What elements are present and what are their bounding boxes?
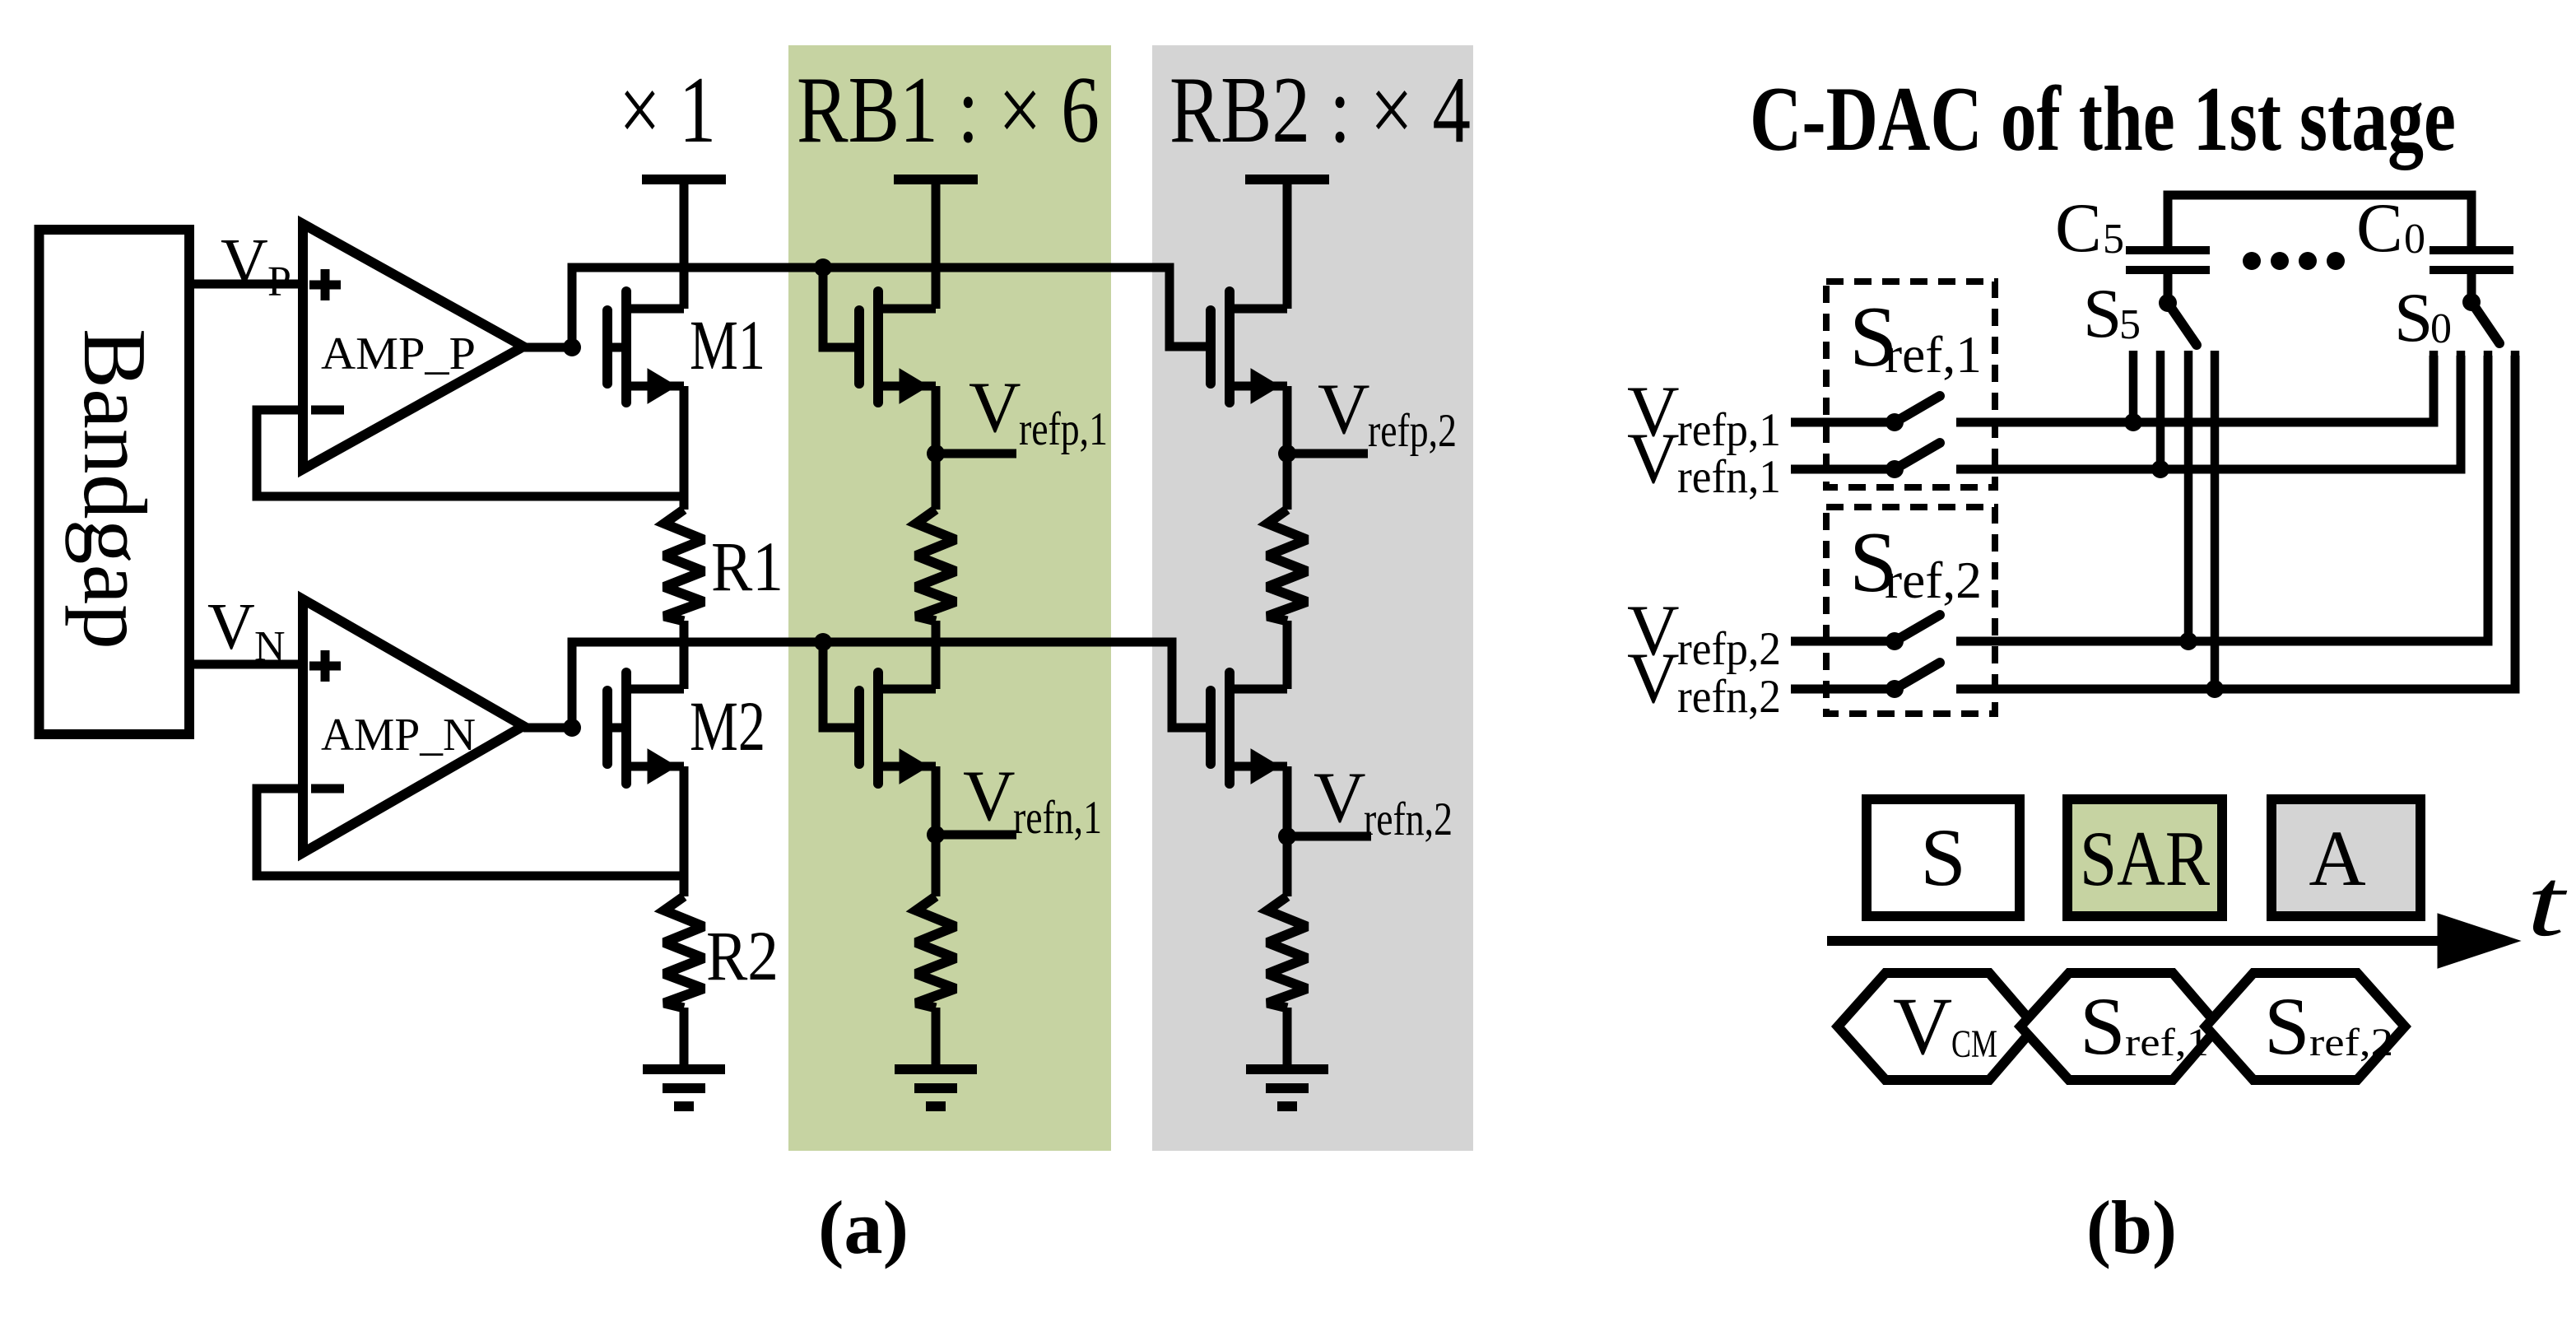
- svg-text:0: 0: [2430, 305, 2452, 352]
- svg-text:refp,1: refp,1: [1677, 404, 1781, 456]
- ellipsis dots: [2243, 252, 2261, 270]
- svg-text:refn,1: refn,1: [1677, 451, 1781, 503]
- junction dot M1 gate: [563, 338, 581, 356]
- wire rail Vrefn2: [1956, 356, 2515, 689]
- node Vrefn1 tap wire: [936, 831, 1016, 840]
- resistor RB2 lower: [1267, 896, 1307, 1008]
- timing box SAR: [2067, 799, 2222, 916]
- time axis: [1827, 936, 2453, 946]
- svg-text:ref,2: ref,2: [1885, 552, 1982, 609]
- wire RB1 upper gate tap: [823, 268, 859, 347]
- switch Sref2 p: [1886, 632, 1904, 650]
- node VP wire: [189, 280, 303, 289]
- svg-text:V: V: [1627, 419, 1680, 499]
- transistor RB1 upper: [873, 291, 883, 403]
- svg-text:N: N: [254, 623, 286, 670]
- junction dot Vrefp2: [1278, 445, 1296, 463]
- svg-text:P: P: [267, 258, 291, 305]
- wire Vrefp2 input stub: [1791, 637, 1895, 646]
- resistor R1: [664, 510, 704, 621]
- capacitor C0: [2430, 246, 2513, 254]
- transistor RB2 lower: [1225, 673, 1235, 784]
- svg-text:ref,1: ref,1: [1885, 326, 1982, 384]
- svg-text:C: C: [2055, 189, 2102, 267]
- svg-text:M2: M2: [690, 687, 765, 766]
- junction dot Vrefn2: [1278, 827, 1296, 845]
- shaded region RB1: [788, 45, 1111, 1151]
- junction dot Vrefp1: [927, 445, 945, 463]
- power VDD M1: [642, 175, 726, 184]
- dashed box Sref2: [1826, 507, 1995, 714]
- svg-text:RB2 : × 4: RB2 : × 4: [1169, 58, 1471, 162]
- resistor RB1 lower: [916, 896, 956, 1008]
- ground RB2: [1246, 1064, 1328, 1074]
- switch S5: [2159, 294, 2177, 312]
- transistor RB2 upper: [1225, 291, 1235, 403]
- svg-text:V: V: [221, 226, 268, 299]
- svg-text:S: S: [2080, 980, 2126, 1072]
- ground RB1: [895, 1064, 977, 1074]
- wire R2 to ground: [680, 1008, 689, 1069]
- wire RB2 mid: [1283, 621, 1292, 689]
- junction dot M2 gate: [563, 719, 581, 737]
- svg-text:C-DAC of the 1st stage: C-DAC of the 1st stage: [1750, 68, 2456, 170]
- svg-text:V: V: [1627, 639, 1680, 719]
- wires S5 selector verticals: [2129, 351, 2138, 422]
- svg-text:V: V: [1318, 370, 1370, 449]
- wire RB1 to ground: [932, 1008, 941, 1069]
- svg-text:C: C: [2356, 189, 2403, 267]
- node Vrefp1 tap wire: [936, 449, 1016, 459]
- svg-text:5: 5: [2119, 301, 2141, 348]
- junction dots S5 taps: [2124, 413, 2142, 431]
- transistor RB1 lower: [873, 673, 883, 784]
- node Vrefp2 tap wire: [1287, 449, 1368, 459]
- wire rail Vrefp1: [1956, 356, 2434, 422]
- power VDD RB2: [1245, 175, 1329, 184]
- svg-text:refp,1: refp,1: [1019, 403, 1108, 455]
- svg-text:AMP_N: AMP_N: [321, 710, 476, 761]
- svg-text:0: 0: [2404, 216, 2425, 263]
- wire RB2 upper source down: [1283, 386, 1292, 510]
- wire RB2 drain to VDD: [1283, 179, 1292, 309]
- svg-text:A: A: [2309, 814, 2365, 902]
- wire RB1 lower gate tap: [823, 642, 859, 728]
- switch Sref2 n: [1886, 680, 1904, 698]
- svg-text:V: V: [969, 368, 1021, 448]
- junction dot Vrefn1: [927, 826, 945, 844]
- wire C0 to switch: [2467, 270, 2476, 296]
- wire AMP_N output to M2 gate: [523, 724, 572, 733]
- svg-text:V: V: [1314, 758, 1366, 838]
- svg-text:RB1 : × 6: RB1 : × 6: [797, 58, 1100, 162]
- svg-text:5: 5: [2103, 216, 2124, 263]
- wire M1 source down: [680, 386, 689, 510]
- timing box A: [2271, 799, 2420, 916]
- op-amp AMP_P: [303, 224, 523, 469]
- dashed box Sref1: [1826, 282, 1995, 487]
- op-amp AMP_N: [303, 599, 523, 853]
- wire top plate rail: [2168, 195, 2471, 251]
- svg-text:ref,2: ref,2: [2309, 1021, 2393, 1064]
- wire rail Vrefp2: [1956, 356, 2488, 641]
- wire RB2 lower source down: [1283, 766, 1292, 896]
- svg-text:V: V: [963, 756, 1016, 836]
- wire RB1 mid: [932, 621, 941, 689]
- node Vrefn2 tap wire: [1287, 832, 1371, 841]
- wire gate bus lower: [572, 642, 1211, 728]
- capacitor C5: [2126, 246, 2210, 254]
- wire AMP_N feedback: [257, 789, 684, 876]
- wire M1 drain to VDD: [680, 179, 689, 309]
- svg-text:refn,1: refn,1: [1013, 792, 1102, 844]
- shaded region RB2: [1152, 45, 1473, 1151]
- ground center branch: [643, 1064, 725, 1074]
- svg-text:Bandgap: Bandgap: [65, 328, 165, 649]
- svg-text:(a): (a): [818, 1185, 909, 1269]
- wire Vrefp1 input stub: [1791, 418, 1895, 427]
- node VN wire: [189, 660, 303, 669]
- svg-text:refp,2: refp,2: [1677, 623, 1781, 675]
- svg-text:S: S: [2394, 279, 2433, 356]
- svg-text:refp,2: refp,2: [1368, 405, 1457, 457]
- svg-text:R1: R1: [711, 527, 783, 606]
- resistor R2: [664, 896, 704, 1008]
- svg-text:CM: CM: [1951, 1022, 1997, 1066]
- hexagon VCM: [1838, 973, 2035, 1080]
- wire RB1 drain to VDD: [932, 179, 941, 309]
- wire rail Vrefn1: [1956, 356, 2461, 469]
- resistor RB2 upper: [1267, 510, 1307, 621]
- hexagon Sref1 phase: [2020, 973, 2219, 1080]
- svg-text:M1: M1: [690, 305, 765, 384]
- junction dot RB1 upper gate: [814, 258, 832, 277]
- wire RB1 upper source down: [932, 386, 941, 510]
- wire RB2 to ground: [1283, 1008, 1292, 1069]
- svg-text:S: S: [1920, 812, 1966, 903]
- svg-text:t: t: [2527, 849, 2568, 957]
- wire AMP_P output to M1 gate: [523, 343, 572, 352]
- wire M2 source down: [680, 766, 689, 896]
- wire Vrefn1 input stub: [1791, 465, 1895, 474]
- transistor M1: [621, 291, 631, 403]
- wire gate bus upper: [572, 268, 1211, 347]
- wire C5 to switch: [2164, 270, 2173, 296]
- wires S0 selector verticals: [2430, 351, 2439, 422]
- wire AMP_P feedback: [257, 410, 684, 496]
- svg-text:S: S: [2083, 275, 2122, 352]
- svg-text:refn,2: refn,2: [1364, 794, 1453, 845]
- junction dot RB1 lower gate: [814, 633, 832, 651]
- transistor M2: [621, 673, 631, 784]
- svg-text:S: S: [2264, 980, 2310, 1072]
- bandgap block: [40, 230, 190, 734]
- power VDD RB1: [894, 175, 978, 184]
- timing box S: [1867, 799, 2020, 916]
- svg-text:R2: R2: [706, 916, 779, 995]
- svg-text:V: V: [1893, 980, 1952, 1072]
- wire RB1 lower source down: [932, 766, 941, 896]
- svg-text:refn,2: refn,2: [1677, 671, 1781, 723]
- switch Sref1 p: [1886, 413, 1904, 431]
- hexagon Sref2 phase: [2206, 973, 2405, 1080]
- switch S0: [2462, 293, 2481, 311]
- svg-text:ref,1: ref,1: [2125, 1021, 2209, 1064]
- svg-text:× 1: × 1: [619, 58, 716, 162]
- svg-text:AMP_P: AMP_P: [321, 328, 476, 379]
- wire Vrefn2 input stub: [1791, 685, 1895, 694]
- switch Sref1 n: [1886, 460, 1904, 478]
- svg-text:(b): (b): [2086, 1185, 2177, 1269]
- svg-text:SAR: SAR: [2080, 815, 2211, 902]
- svg-text:V: V: [207, 591, 255, 663]
- resistor RB1 upper: [916, 510, 956, 621]
- wire R1 to M2 drain: [680, 621, 689, 689]
